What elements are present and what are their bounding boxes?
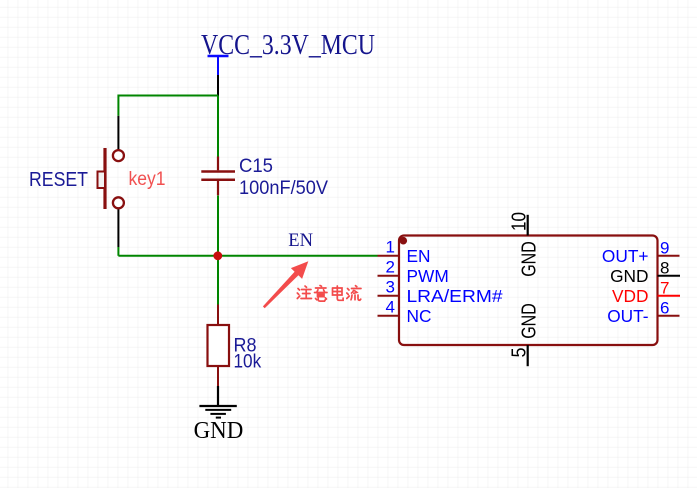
pin 7 stub: [658, 295, 681, 297]
svg-text:LRA/ERM#: LRA/ERM#: [407, 286, 503, 306]
svg-text:PWM: PWM: [407, 266, 449, 286]
pin 2 stub: [378, 275, 400, 277]
pin 4 stub: [378, 315, 400, 317]
svg-text:10: 10: [509, 212, 531, 231]
svg-text:9: 9: [660, 238, 669, 257]
svg-text:1: 1: [386, 237, 395, 256]
wire top horizontal: [118, 95, 218, 97]
pin 3 stub: [378, 295, 400, 297]
svg-text:2: 2: [386, 257, 395, 276]
svg-text:4: 4: [386, 297, 395, 316]
svg-text:GND: GND: [519, 303, 541, 339]
ground: [199, 386, 236, 418]
annotation arrow: [263, 261, 308, 308]
svg-text:GND: GND: [519, 241, 541, 277]
pin 1 stub: [378, 255, 400, 257]
wire left vertical upper: [117, 95, 119, 116]
svg-text:100nF/50V: 100nF/50V: [239, 177, 328, 199]
wire EN horizontal: [218, 255, 378, 257]
annotation text 注意电流: [297, 286, 361, 302]
svg-text:GND: GND: [194, 418, 244, 444]
svg-text:OUT+: OUT+: [602, 246, 649, 266]
svg-text:EN: EN: [407, 246, 431, 266]
svg-text:7: 7: [660, 278, 669, 297]
wire bottom horizontal left: [118, 255, 218, 257]
wire junction to resistor: [217, 256, 219, 305]
IC U1 body: [399, 236, 658, 346]
svg-text:8: 8: [660, 258, 669, 277]
pin 6 stub: [658, 315, 680, 317]
junction dot: [213, 251, 222, 260]
svg-text:10k: 10k: [234, 351, 262, 372]
svg-text:EN: EN: [288, 230, 313, 251]
svg-text:VDD: VDD: [612, 286, 649, 306]
pin 1 indicator dot: [400, 237, 408, 245]
resistor R8: [208, 305, 230, 387]
wire cap to junction: [217, 196, 219, 256]
capacitor C15: [201, 157, 235, 196]
svg-text:key1: key1: [129, 169, 166, 190]
svg-text:5: 5: [509, 348, 531, 358]
power flag VCC_3.3V_MCU: [208, 56, 229, 96]
svg-text:3: 3: [386, 277, 395, 296]
wire left vertical lower: [117, 247, 119, 256]
pin 10 stub: [527, 215, 529, 236]
svg-text:C15: C15: [239, 155, 273, 177]
pin 5 stub: [527, 345, 529, 366]
svg-text:OUT-: OUT-: [607, 306, 648, 326]
svg-text:NC: NC: [407, 306, 432, 326]
pushbutton key1: [98, 116, 124, 247]
pin 8 stub: [658, 275, 681, 277]
wire middle vertical (power to cap): [217, 96, 219, 157]
pin 9 stub: [658, 255, 680, 257]
svg-text:GND: GND: [610, 266, 648, 286]
svg-text:RESET: RESET: [29, 169, 88, 191]
svg-text:6: 6: [660, 298, 669, 317]
